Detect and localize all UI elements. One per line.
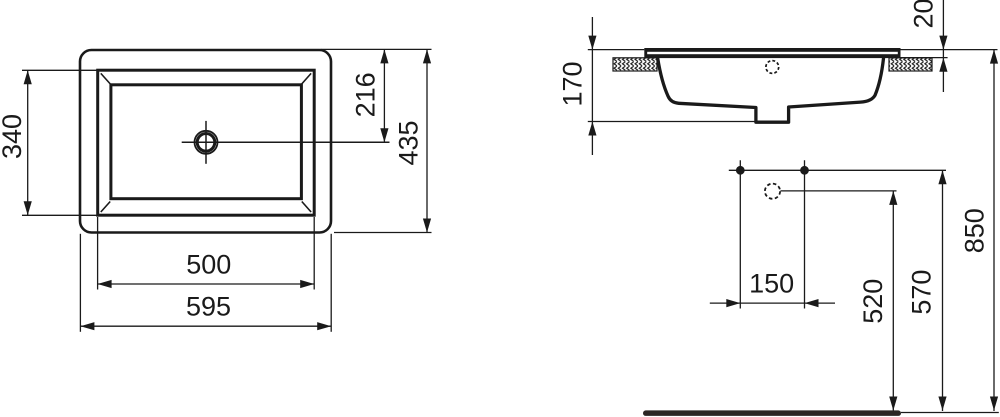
label 150 bbox=[749, 269, 794, 299]
fixing hole vertical left / 150 extension bbox=[739, 160, 741, 308]
label 340 bbox=[0, 114, 27, 159]
basin bowl section outline bbox=[658, 58, 884, 122]
label 500 bbox=[186, 249, 231, 279]
countertop hatch left bbox=[613, 58, 657, 71]
svg-text:150: 150 bbox=[749, 269, 794, 299]
extension line 595 right bbox=[330, 234, 332, 332]
label 435 bbox=[394, 120, 424, 165]
corner chamfer top-right bbox=[302, 73, 311, 84]
fixing hole dot right bbox=[800, 166, 809, 175]
label 850 bbox=[960, 208, 990, 253]
basin rim slab bbox=[644, 48, 900, 58]
extension line top right (216/435) bbox=[321, 48, 432, 50]
dimension line 170 (arrows outside) bbox=[588, 17, 596, 155]
svg-text:850: 850 bbox=[960, 208, 990, 253]
drain outer circle bbox=[195, 131, 218, 154]
drain crosshair vertical bbox=[205, 121, 207, 164]
basin rim rectangle bbox=[98, 70, 315, 215]
dimension line 216 bbox=[380, 49, 388, 142]
svg-text:570: 570 bbox=[907, 270, 937, 315]
faucet hole dashed circle (section) bbox=[766, 61, 779, 74]
label 595 bbox=[186, 292, 231, 322]
dimension line 850 bbox=[990, 50, 998, 411]
basin bowl rectangle bbox=[111, 85, 302, 199]
svg-text:595: 595 bbox=[186, 292, 231, 322]
extension line 170 bottom bbox=[588, 121, 758, 123]
fixing hole vertical right / 150 extension bbox=[804, 160, 806, 308]
corner chamfer top-left bbox=[101, 73, 110, 84]
corner chamfer bottom-right bbox=[302, 202, 311, 213]
extension line 595 left bbox=[79, 234, 81, 332]
label 216 bbox=[351, 72, 381, 117]
countertop surface line right bbox=[901, 49, 998, 51]
svg-text:435: 435 bbox=[394, 120, 424, 165]
svg-text:170: 170 bbox=[558, 61, 588, 106]
svg-text:20: 20 bbox=[909, 0, 939, 29]
dimension line 150 (arrows outside) bbox=[710, 299, 835, 307]
svg-text:216: 216 bbox=[351, 72, 381, 117]
extension line 500 left bbox=[97, 217, 99, 290]
fixing hole dot left bbox=[736, 166, 745, 175]
dimension line 20 (arrows outside) bbox=[939, 0, 947, 92]
dimension line 340 bbox=[24, 70, 32, 215]
extension line 20 (rim underside) bbox=[901, 57, 948, 59]
extension line 340 top bbox=[22, 69, 98, 71]
drain crosshair horizontal / extension to 216 dim bbox=[182, 141, 390, 143]
faucet hole horizontal line to 520 bbox=[781, 190, 897, 192]
dimension line 500 bbox=[98, 280, 315, 288]
extension line 340 bottom bbox=[22, 214, 98, 216]
corner chamfer bottom-left bbox=[101, 202, 110, 213]
basin outer body (rounded rectangle) bbox=[80, 50, 331, 233]
floor thick bar bbox=[643, 410, 901, 416]
countertop surface line left bbox=[588, 49, 645, 51]
faucet hole dashed circle (installation) bbox=[765, 184, 780, 199]
svg-text:500: 500 bbox=[186, 249, 231, 279]
label 170 bbox=[558, 61, 588, 106]
dimension line 435 bbox=[423, 49, 431, 232]
label 570 bbox=[907, 270, 937, 315]
dimension line 520 bbox=[889, 191, 897, 411]
svg-text:520: 520 bbox=[858, 279, 888, 324]
label 520 bbox=[858, 279, 888, 324]
fixing holes horizontal line bbox=[729, 169, 946, 171]
dimension line 595 bbox=[80, 322, 331, 330]
countertop hatch right bbox=[889, 58, 932, 71]
label 20 bbox=[909, 0, 939, 29]
svg-text:340: 340 bbox=[0, 114, 27, 159]
floor thin line bbox=[901, 412, 999, 414]
extension line 500 right bbox=[313, 217, 315, 290]
extension line bottom right (435) bbox=[334, 232, 432, 234]
drain inner circle bbox=[197, 134, 215, 152]
dimension line 570 bbox=[938, 170, 946, 411]
